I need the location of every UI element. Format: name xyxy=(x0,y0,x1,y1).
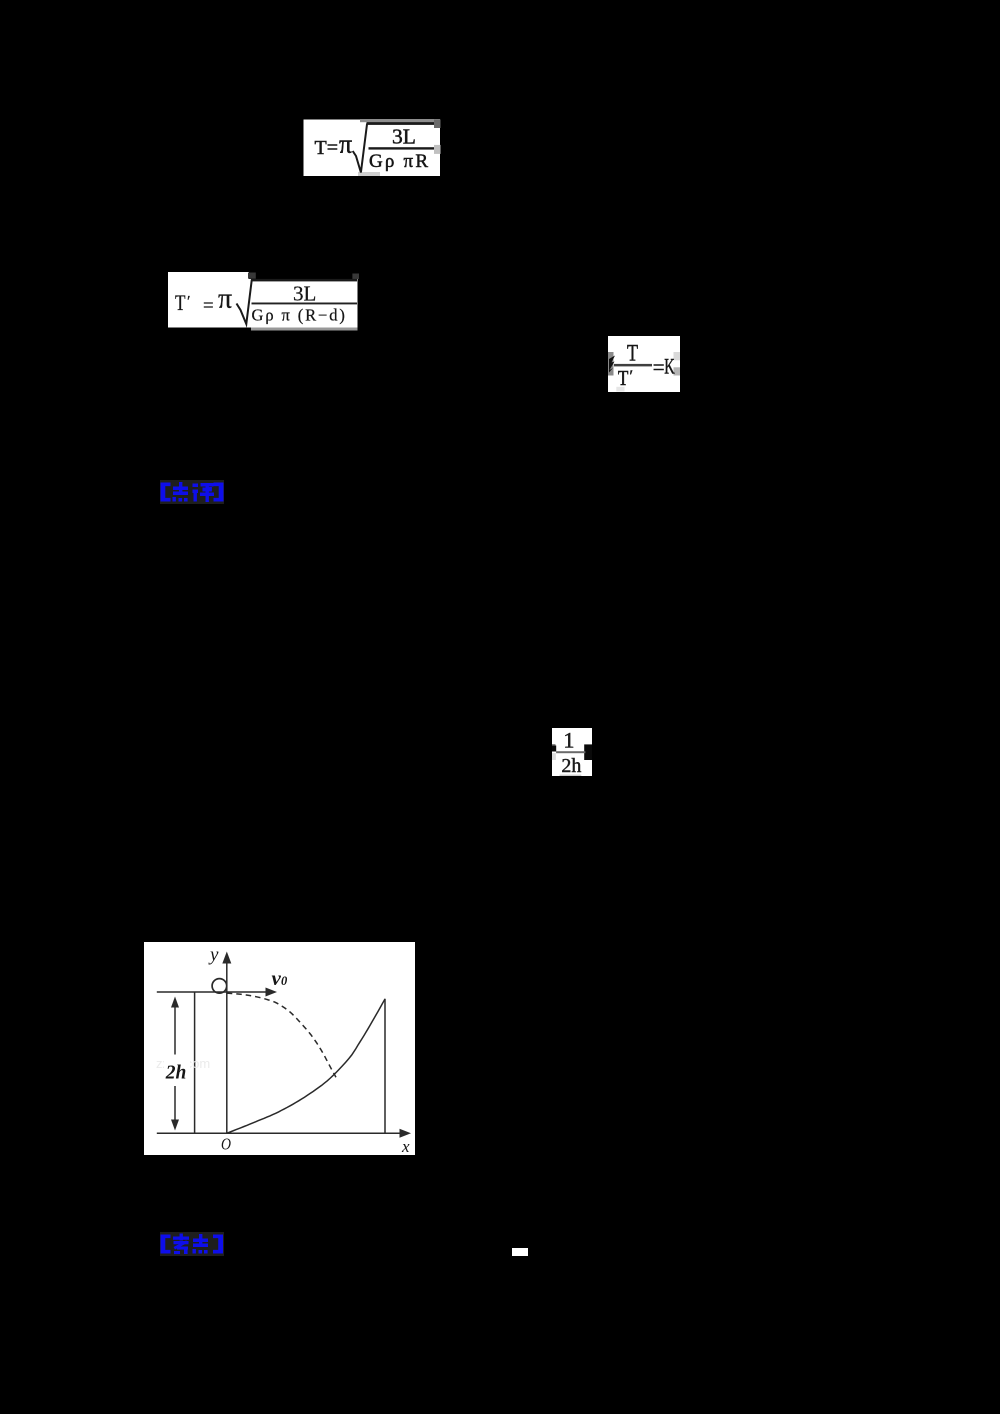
gray smudge bottom left xyxy=(358,172,380,176)
dashed trajectory xyxy=(227,993,336,1077)
svg-text:=: = xyxy=(653,355,665,379)
white dash xyxy=(512,1248,528,1256)
y axis arrowhead xyxy=(222,952,231,964)
fraction bar xyxy=(614,364,652,367)
svg-text:0: 0 xyxy=(281,974,288,988)
svg-text:′: ′ xyxy=(187,294,191,311)
svg-text:T: T xyxy=(618,366,629,390)
2h double arrow line xyxy=(174,999,176,1127)
top horizontal line xyxy=(157,991,271,993)
dark handle squares on top edge xyxy=(248,273,256,279)
2h top arrowhead xyxy=(171,997,179,1008)
svg-text:y: y xyxy=(208,945,219,966)
formula image 3: T/T' = K xyxy=(608,336,680,392)
x axis arrowhead xyxy=(400,1129,412,1138)
fraction bar xyxy=(252,303,358,305)
vinculum xyxy=(367,122,435,125)
gray bit above left notch xyxy=(552,744,556,746)
bottom gray strip xyxy=(560,775,582,776)
bottom gray strip under radical area xyxy=(251,328,358,331)
char dian xyxy=(193,1234,209,1254)
right bracket xyxy=(214,483,224,502)
second vertical line xyxy=(194,992,196,1133)
char kao xyxy=(173,1234,189,1255)
svg-text:1: 1 xyxy=(563,728,574,753)
black notch left xyxy=(552,746,556,752)
v0 arrowhead xyxy=(266,988,278,997)
x-axis xyxy=(157,1132,405,1134)
svg-text:T=: T= xyxy=(315,137,339,159)
gray handle right middle xyxy=(434,145,441,154)
radical sign xyxy=(237,280,252,325)
y-axis xyxy=(226,956,228,1133)
svg-text:π: π xyxy=(218,284,232,315)
svg-text:K: K xyxy=(664,354,675,379)
svg-text:Gρ πR: Gρ πR xyxy=(369,151,430,172)
formula image 4: 1/(2h) xyxy=(552,728,592,776)
formula image 1: T = pi sqrt(3L/(G rho pi R)) xyxy=(303,119,441,177)
formula image 2: T' = pi sqrt(3L/(G rho pi (R-d))) xyxy=(167,271,359,332)
gray strip above vinculum xyxy=(360,119,440,122)
char dian xyxy=(173,482,189,502)
white body: left part full height, right part starts at vinculum xyxy=(168,272,358,328)
ball circle xyxy=(212,979,227,994)
char ping xyxy=(193,483,215,502)
svg-text:T: T xyxy=(627,341,638,366)
label 2h xyxy=(164,1055,190,1087)
left bracket xyxy=(161,483,171,502)
fraction bar xyxy=(369,147,435,149)
bottom gray smudge xyxy=(616,387,624,392)
svg-text:Gρ π (R−d): Gρ π (R−d) xyxy=(252,306,347,325)
physics diagram xyxy=(144,942,415,1155)
fraction bar xyxy=(556,751,585,753)
left bracket xyxy=(161,1235,171,1254)
svg-text:=: = xyxy=(203,296,214,317)
right bracket xyxy=(213,1235,223,1254)
blue label 1: dianping xyxy=(160,480,224,504)
right vertical line xyxy=(384,999,386,1133)
svg-text:′: ′ xyxy=(630,368,634,385)
vinculum xyxy=(251,279,357,282)
svg-text:π: π xyxy=(339,130,352,159)
svg-text:3L: 3L xyxy=(392,125,416,149)
svg-text:T: T xyxy=(175,290,186,315)
svg-text:2h: 2h xyxy=(165,1062,187,1083)
dark jagged mark on left edge xyxy=(609,356,615,373)
gray patch on left edge xyxy=(608,352,614,376)
svg-text:v: v xyxy=(272,966,282,990)
svg-text:O: O xyxy=(221,1135,231,1154)
radical sign xyxy=(353,124,367,173)
2h bottom arrowhead xyxy=(171,1120,179,1131)
gray right edge strips xyxy=(674,352,681,360)
solid curve xyxy=(227,999,385,1133)
svg-text:x: x xyxy=(401,1137,410,1155)
svg-text:2h: 2h xyxy=(561,755,581,776)
black notch right xyxy=(584,744,592,760)
light strip below left notch xyxy=(552,753,556,760)
blue label 2: kaodian xyxy=(160,1232,224,1256)
svg-text:3L: 3L xyxy=(293,282,316,306)
